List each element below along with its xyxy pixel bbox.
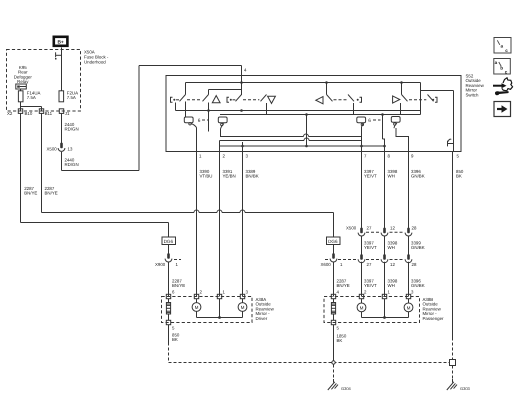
wire 2440 RD/GN from X500 to switch pin 4 — [62, 66, 242, 171]
svg-text:VT/BU: VT/BU — [200, 174, 213, 179]
svg-text:Switch: Switch — [466, 92, 479, 97]
svg-text:J1: J1 — [65, 111, 70, 116]
fuse block X50A dashed box — [7, 50, 81, 112]
svg-text:G304: G304 — [341, 386, 352, 391]
ground run dashed horizontal — [169, 362, 450, 364]
svg-text:BK: BK — [172, 337, 178, 342]
label 2287 BN/YE passenger lower — [337, 279, 350, 289]
svg-text:X500: X500 — [346, 226, 357, 231]
wire terminal to ground G303 — [452, 366, 454, 380]
label 3397 YE/VT upper — [364, 169, 377, 179]
svg-text:BN/YE: BN/YE — [337, 283, 350, 288]
label 3399 GN/BK mid — [411, 241, 425, 251]
wire 3398 WH X500 to X600 — [384, 236, 386, 256]
wire 3398 WH X600 to passenger mirror — [384, 262, 386, 297]
wire F14UA to pins B10 and B11 — [21, 102, 42, 111]
triangle left symbol — [316, 97, 323, 104]
connector X500 pin 28 — [405, 226, 417, 236]
triangle right symbol — [393, 96, 400, 103]
svg-text:c: c — [505, 48, 508, 53]
svg-text:27: 27 — [367, 226, 372, 231]
svg-text:M: M — [195, 305, 199, 310]
driver mirror A38A dashed box — [162, 297, 253, 323]
svg-text:X500: X500 — [47, 147, 58, 152]
svg-text:RD/GN: RD/GN — [65, 127, 79, 132]
wire bus Y to pin 2 — [220, 115, 362, 152]
label 3396 GN/BK upper — [411, 169, 425, 179]
wire selector4 to pin 9 — [396, 128, 409, 152]
label A38B Outside Rearview Mirror - Passenger — [423, 297, 445, 321]
svg-text:DG6: DG6 — [328, 239, 338, 244]
svg-text:WH: WH — [388, 174, 395, 179]
wire 3391 YE/BN switch pin2 to driver mirror — [219, 152, 221, 297]
splice pack DG6 passenger — [327, 237, 341, 245]
svg-text:WH: WH — [388, 245, 395, 250]
label 2287 BN/YE left outer — [24, 186, 37, 196]
wire splice to ground G304 — [333, 365, 335, 380]
svg-text:YE/VT: YE/VT — [364, 174, 377, 179]
svg-text:7.5A: 7.5A — [27, 95, 36, 100]
gang 4 right contact — [402, 83, 438, 103]
switch pin labels 1 2 3 7 8 9 5 — [199, 154, 460, 159]
mirror switch S52 box — [166, 76, 461, 152]
label 3391 YE/BN — [223, 169, 236, 179]
wire selector1 to pin 1 — [196, 128, 198, 152]
svg-text:YE/BN: YE/BN — [223, 174, 236, 179]
driver mirror motor right — [238, 299, 247, 312]
icon sort alphabetical reverse box — [494, 59, 511, 75]
svg-text:13: 13 — [68, 147, 73, 152]
svg-text:BK: BK — [337, 338, 343, 343]
connector X500 pin 27 — [358, 226, 372, 237]
wire 3398 WH switch pin8 to X500 — [384, 152, 386, 231]
driver mirror pin squares — [166, 294, 244, 324]
switch internal bus Y — [176, 91, 421, 116]
label 3397 YE/VT mid — [364, 241, 377, 251]
terminal square on G303 path — [450, 360, 456, 366]
splice pack DG6 driver — [162, 237, 176, 245]
label 3396 GN/BK lower — [411, 279, 425, 289]
svg-text:a: a — [495, 60, 498, 65]
wire 2287 BN/YE from pin B11 to passenger DG6 — [42, 113, 334, 237]
passenger mirror motor left — [357, 299, 366, 312]
svg-text:B+: B+ — [57, 39, 63, 45]
relay K95 label — [14, 65, 33, 84]
icon forward arrow box — [494, 102, 511, 117]
wire pin4 feed into gangs — [241, 76, 243, 96]
icon repair hand with wrench — [493, 78, 513, 95]
svg-text:G303: G303 — [460, 386, 471, 391]
heated mirror switch contact — [448, 131, 454, 152]
wire internal H2 to pin 3 — [220, 142, 385, 152]
pin B11 square — [39, 109, 43, 114]
wire B+ to fuse F2UA — [61, 48, 63, 91]
wire 2287 BN/YE X900 to driver mirror pin 6 — [168, 262, 170, 297]
wire selector2 to pin 7 — [221, 129, 362, 137]
connector X500 pin 12 — [381, 226, 395, 236]
svg-text:YE/VT: YE/VT — [364, 283, 377, 288]
driver mirror motor left — [192, 299, 201, 312]
wire 3390 VT/BU switch pin1 to driver mirror — [196, 152, 198, 297]
label 3398 WH lower — [388, 279, 398, 289]
inline connector X500 pin 13 — [47, 143, 73, 152]
svg-text:BK: BK — [456, 174, 462, 179]
ground symbol G303 — [447, 379, 471, 391]
connector X600 pin 27 — [358, 254, 372, 267]
switch internal bus B — [209, 90, 242, 95]
svg-text:GN/BK: GN/BK — [411, 174, 425, 179]
inline connector X900 pin 1 — [155, 253, 181, 267]
triangle down symbol — [268, 96, 276, 103]
svg-text:M: M — [360, 305, 364, 310]
svg-text:Underhood: Underhood — [84, 60, 106, 65]
fuse F2UA — [59, 90, 78, 102]
wire switch 850 BK to terminal square — [452, 338, 454, 360]
selector contact 4 — [391, 117, 400, 129]
label 2287 BN/YE driver lower — [172, 279, 185, 289]
svg-text:BN/YE: BN/YE — [24, 191, 37, 196]
label A38A Outside Rearview Mirror - Driver — [256, 297, 275, 321]
svg-text:B10: B10 — [25, 111, 33, 116]
svg-text:DG6: DG6 — [164, 239, 174, 244]
svg-text:WH: WH — [388, 283, 395, 288]
svg-text:6: 6 — [198, 118, 201, 124]
label 2440 RD/GN upper — [65, 122, 79, 132]
wire DG6 passenger to X600 — [333, 245, 335, 256]
label S52 Outside Rearview Mirror Switch — [466, 74, 485, 98]
driver mirror motor common wire — [197, 299, 243, 319]
connector X600 pin 28 — [405, 254, 417, 267]
wire bus A branch to heated mirror contact — [421, 83, 454, 131]
svg-text:Passenger: Passenger — [423, 316, 445, 321]
wire 2287 BN/YE X600 to passenger mirror pin 4 — [333, 262, 335, 297]
ground symbol G304 — [328, 379, 352, 391]
svg-text:Driver: Driver — [256, 316, 268, 321]
inline connector row X600 dashed harness line — [325, 259, 404, 261]
battery B+ terminal — [54, 37, 68, 46]
label 3398 WH mid — [388, 241, 398, 251]
label 1850 BK — [337, 334, 347, 344]
svg-text:a: a — [501, 44, 504, 49]
passenger mirror motor common wire — [362, 299, 409, 319]
svg-text:6: 6 — [368, 118, 371, 124]
label 3398 WH upper — [388, 169, 398, 179]
wire DG6 driver to X900 — [168, 245, 170, 256]
svg-text:BN/YE: BN/YE — [172, 283, 185, 288]
switch internal bus A — [186, 81, 421, 84]
svg-text:BN/BK: BN/BK — [246, 174, 259, 179]
wire 850 BK switch pin5 to ground run — [452, 152, 454, 338]
wire 2440 RD/GN from J1 to X500 — [61, 113, 63, 145]
wire 3399 GN/BK X500 to X600 — [408, 236, 410, 256]
label 3390 VT/BU — [200, 169, 213, 179]
svg-text:Relay: Relay — [17, 79, 29, 84]
svg-text:YE/VT: YE/VT — [364, 245, 377, 250]
svg-text:X2: X2 — [7, 111, 13, 116]
label 3397 YE/VT lower — [364, 279, 377, 289]
driver mirror pin labels 6 2 1 3 — [172, 289, 249, 294]
svg-text:c: c — [505, 69, 508, 74]
relay K95 contact symbol — [16, 84, 26, 89]
label 2287 BN/YE left inner — [45, 186, 58, 196]
inline connector row X500 dashed harness line — [346, 226, 404, 233]
icon sort alphabetical box — [494, 38, 511, 54]
splice node at ground run — [332, 361, 335, 364]
svg-text:M: M — [407, 305, 411, 310]
label 850 BK right — [456, 169, 464, 179]
wire 3396 GN/BK X600 to passenger mirror — [408, 262, 410, 297]
svg-text:28: 28 — [412, 262, 417, 267]
svg-text:X600: X600 — [321, 262, 332, 267]
wire selector3 to pin 8 — [360, 115, 386, 152]
wire 1850 BK passenger mirror to splice — [333, 325, 335, 363]
svg-text:M: M — [241, 305, 245, 310]
svg-text:RD/GN: RD/GN — [65, 162, 79, 167]
label 2440 RD/GN lower — [65, 158, 79, 168]
triangle up symbol — [212, 96, 220, 103]
passenger mirror A38B dashed box — [324, 297, 420, 323]
inline connector X600 pin 1 — [321, 253, 344, 267]
svg-text:7.5A: 7.5A — [67, 95, 76, 100]
svg-text:28: 28 — [412, 226, 417, 231]
svg-text:27: 27 — [367, 262, 372, 267]
selector contact 1 — [184, 102, 208, 132]
gang 3 left contact — [327, 83, 362, 103]
svg-text:B11: B11 — [45, 111, 53, 116]
wire 3397 YE/VT switch pin7 to X500 — [361, 152, 363, 231]
label 3389 BN/BK — [246, 169, 259, 179]
svg-text:GN/BK: GN/BK — [411, 283, 425, 288]
wire 2287 BN/YE from pin B10 to driver DG6 — [21, 113, 169, 237]
gang 2 down contact — [227, 95, 267, 103]
svg-text:BN/YE: BN/YE — [45, 191, 58, 196]
svg-text:12: 12 — [390, 262, 395, 267]
connector X600 pin 12 — [381, 254, 395, 267]
connector pin labels X2 B10 B11 J1 — [7, 111, 70, 116]
wire 850 BK driver mirror to ground run — [168, 325, 170, 363]
label 850 BK driver — [172, 333, 180, 343]
selector contact 2 — [218, 117, 227, 129]
driver mirror heater element — [166, 299, 170, 321]
wire 3389 BN/BK switch pin3 to driver mirror — [242, 152, 244, 297]
svg-text:X900: X900 — [155, 262, 166, 267]
passenger mirror heater element — [331, 299, 335, 321]
svg-text:b: b — [500, 65, 503, 70]
passenger mirror pin labels 4 2 1 3 — [337, 289, 415, 294]
pin B10 square — [18, 109, 22, 114]
svg-text:12: 12 — [390, 226, 395, 231]
fuse F14UA — [18, 89, 40, 102]
gang 1 up contact — [171, 83, 209, 103]
selector contact 3 — [357, 117, 381, 127]
passenger mirror pin squares — [331, 294, 410, 324]
relay contact on B+ feed — [55, 52, 62, 59]
svg-text:GN/BK: GN/BK — [411, 245, 425, 250]
label X50A Fuse Block - Underhood — [84, 50, 109, 65]
pin J1 square — [59, 109, 63, 114]
passenger mirror motor right — [404, 299, 413, 312]
wire 3397 YE/VT X600 to passenger mirror — [361, 262, 363, 297]
wire 3397 YE/VT X500 to X600 — [361, 236, 363, 256]
wire 3396 GN/BK switch pin9 to X500 — [408, 152, 410, 231]
